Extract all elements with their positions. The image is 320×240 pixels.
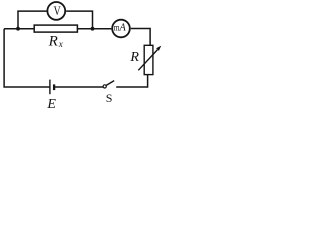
svg-text:A: A — [119, 22, 127, 33]
svg-text:R: R — [129, 50, 139, 65]
svg-text:E: E — [46, 97, 56, 110]
svg-text:V: V — [54, 5, 62, 19]
svg-text:R: R — [48, 34, 58, 50]
svg-text:S: S — [106, 91, 113, 105]
svg-text:x: x — [58, 39, 63, 49]
